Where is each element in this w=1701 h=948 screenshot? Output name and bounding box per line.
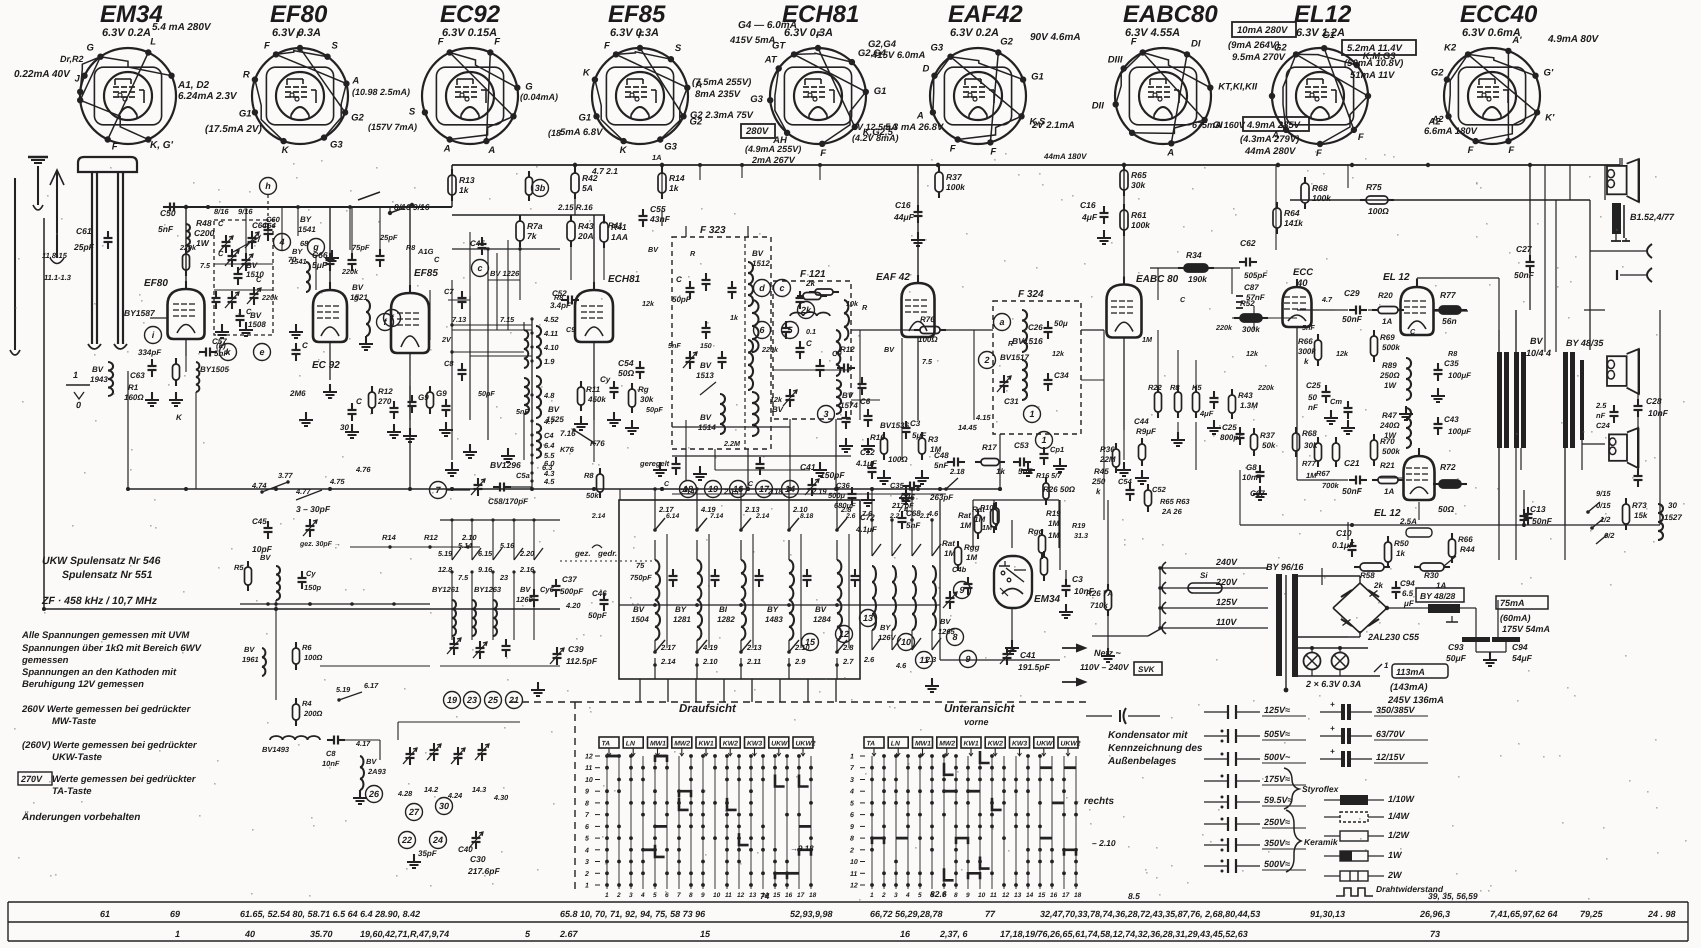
svg-text:10nF: 10nF [322,759,340,768]
svg-text:Außenbelages: Außenbelages [1107,756,1177,767]
svg-text:2.14: 2.14 [660,657,676,666]
svg-text:8: 8 [954,892,958,899]
svg-text:30: 30 [439,801,449,811]
svg-text:C: C [434,255,440,264]
svg-text:C45: C45 [252,517,267,526]
svg-text:150pF: 150pF [820,470,845,480]
svg-text:AT: AT [764,55,778,66]
svg-text:675mA 160V: 675mA 160V [1192,120,1246,130]
svg-text:12k: 12k [642,299,655,308]
svg-text:BV: BV [815,605,827,614]
svg-text:F: F [1358,132,1364,143]
svg-text:12.8: 12.8 [438,565,453,574]
svg-text:UKW: UKW [1036,741,1053,748]
svg-text:9/15: 9/15 [1596,489,1611,498]
svg-text:91,30,13: 91,30,13 [1310,909,1345,919]
svg-text:100k: 100k [1312,193,1332,203]
svg-text:700k: 700k [1322,481,1340,490]
svg-text:10: 10 [901,637,911,647]
svg-text:10nF: 10nF [1242,473,1262,482]
svg-text:1k: 1k [459,185,470,195]
svg-text:R70: R70 [1380,437,1395,446]
svg-text:6.3: 6.3 [542,463,553,472]
svg-text:Kondensator mit: Kondensator mit [1108,730,1188,741]
svg-text:EF80: EF80 [270,1,328,28]
svg-text:50k: 50k [586,491,599,500]
svg-text:G1: G1 [1322,30,1335,41]
svg-text:C: C [218,219,224,228]
svg-text:1: 1 [1041,435,1046,445]
svg-text:61: 61 [100,909,110,919]
svg-text:23: 23 [499,573,508,582]
svg-text:C: C [356,397,362,406]
svg-text:A: A [351,76,359,87]
svg-text:505V≈: 505V≈ [1264,729,1290,739]
svg-text:R45: R45 [1094,467,1109,476]
svg-text:2.17: 2.17 [660,643,676,652]
svg-text:1282: 1282 [717,615,735,624]
svg-text:C46: C46 [592,589,607,598]
svg-text:3: 3 [585,859,589,866]
svg-text:5nF: 5nF [516,407,529,416]
svg-text:K: K [583,68,591,79]
svg-text:16: 16 [785,892,793,899]
svg-text:175V≈: 175V≈ [1264,774,1290,784]
svg-text:(157V 7mA): (157V 7mA) [368,122,417,132]
svg-text:C29: C29 [1344,288,1360,298]
svg-text:C61: C61 [76,226,92,236]
svg-text:2mA 267V: 2mA 267V [751,155,796,165]
svg-text:100k: 100k [946,182,966,192]
svg-text:C53: C53 [1014,441,1029,450]
svg-text:S: S [332,41,339,52]
svg-text:R12: R12 [378,387,393,396]
svg-text:C: C [218,249,224,258]
svg-text:BV1516: BV1516 [1012,336,1043,346]
svg-text:A1G: A1G [417,247,434,256]
svg-text:22: 22 [401,835,412,845]
svg-text:7.5: 7.5 [200,261,211,270]
svg-text:C55: C55 [650,204,666,214]
svg-text:G: G [87,43,95,54]
svg-text:R22: R22 [1148,383,1163,392]
svg-text:k: k [1304,357,1309,366]
svg-text:R21: R21 [1380,461,1395,470]
svg-text:F: F [990,146,996,157]
svg-text:141k: 141k [1284,218,1304,228]
svg-text:EL12: EL12 [1294,1,1352,28]
svg-text:D: D [923,64,930,75]
svg-text:R43: R43 [1238,391,1253,400]
svg-text:C24: C24 [1596,421,1611,430]
svg-text:125V≈: 125V≈ [1264,705,1290,715]
svg-text:52,93,9,98: 52,93,9,98 [790,909,833,919]
svg-text:F: F [494,37,500,48]
svg-text:2: 2 [983,355,989,365]
svg-text:R9μF: R9μF [1136,427,1157,436]
svg-text:5nF: 5nF [158,224,174,234]
svg-text:4.75: 4.75 [329,477,345,486]
svg-text:2.2: 2.2 [889,513,900,520]
svg-text:Spannungen über 1kΩ mit Bereic: Spannungen über 1kΩ mit Bereich 6WV [22,643,202,654]
svg-text:R: R [1008,339,1014,348]
svg-text:12k: 12k [770,395,783,404]
svg-text:4.17: 4.17 [355,739,371,748]
svg-text:12: 12 [1002,892,1010,899]
svg-text:C36: C36 [836,481,851,490]
svg-text:9/16: 9/16 [238,207,253,216]
svg-text:30k: 30k [640,395,654,404]
svg-text:50pF: 50pF [646,405,663,414]
svg-text:G3: G3 [750,94,763,105]
svg-text:+: + [1330,700,1335,709]
svg-text:BV: BV [548,405,560,414]
svg-text:1: 1 [175,929,180,939]
svg-text:12k: 12k [1052,349,1065,358]
svg-text:15: 15 [773,892,781,899]
svg-text:2.16: 2.16 [519,565,535,574]
svg-text:Cm: Cm [1330,397,1342,406]
svg-text:1M: 1M [960,521,971,530]
svg-text:43nF: 43nF [649,214,671,224]
svg-text:3: 3 [850,777,854,784]
svg-text:5.2mA 11.4V: 5.2mA 11.4V [1347,43,1403,54]
svg-text:MW1: MW1 [915,741,931,748]
svg-text:BY 48/28: BY 48/28 [1420,591,1456,601]
svg-text:112.5pF: 112.5pF [566,656,598,666]
svg-text:220k: 220k [341,267,359,276]
svg-text:4.7 2.1: 4.7 2.1 [591,166,618,176]
svg-text:75: 75 [636,561,645,570]
svg-text:3: 3 [894,892,898,899]
svg-text:C8: C8 [326,749,336,758]
svg-text:R11: R11 [586,385,601,394]
svg-text:10: 10 [850,859,858,866]
svg-text:0.22mA 40V: 0.22mA 40V [14,69,71,80]
svg-text:8mA 235V: 8mA 235V [695,89,741,100]
svg-text:Styroflex: Styroflex [1302,784,1340,794]
svg-text:F: F [604,40,610,51]
svg-text:500V≈: 500V≈ [1264,859,1290,869]
svg-text:30k: 30k [1131,180,1146,190]
svg-text:→9.18: →9.18 [790,844,814,853]
svg-text:R50: R50 [1394,539,1409,548]
svg-text:1: 1 [1384,661,1389,670]
svg-text:C40: C40 [458,845,473,854]
svg-text:3 – 30pF: 3 – 30pF [296,504,331,514]
svg-text:12k: 12k [1336,349,1349,358]
svg-text:10/4 4: 10/4 4 [1526,348,1551,358]
svg-text:6.3V 0.3A: 6.3V 0.3A [610,27,659,39]
svg-text:2k: 2k [1373,581,1383,590]
svg-text:100μF: 100μF [1448,427,1472,436]
svg-text:16: 16 [900,929,911,939]
svg-text:C4b: C4b [952,565,967,574]
svg-text:8: 8 [585,800,589,807]
svg-text:C7: C7 [444,287,454,296]
svg-text:50k: 50k [1262,441,1276,450]
svg-text:UKW2: UKW2 [1061,741,1081,748]
svg-text:3: 3 [823,409,828,419]
svg-text:(4.9mA 255V): (4.9mA 255V) [745,144,801,154]
svg-text:F 324: F 324 [1018,289,1044,300]
svg-text:2 × 6.3V 0.3A: 2 × 6.3V 0.3A [1305,679,1361,689]
svg-text:MW-Taste: MW-Taste [52,716,97,727]
svg-text:(143mA): (143mA) [1390,682,1428,693]
svg-text:C44: C44 [1134,417,1149,426]
svg-text:415V 5mA: 415V 5mA [729,35,776,46]
svg-text:C60: C60 [266,215,281,224]
svg-text:C94: C94 [1512,642,1528,652]
svg-text:EC 92: EC 92 [312,360,340,371]
svg-text:77: 77 [985,909,996,919]
svg-text:R12: R12 [424,533,439,542]
svg-text:680μF: 680μF [834,501,856,510]
svg-text:2.11: 2.11 [746,657,761,666]
svg-text:500pF: 500pF [560,587,584,596]
svg-text:BV: BV [842,391,854,400]
svg-text:EF85: EF85 [414,268,438,279]
svg-text:26,96,3: 26,96,3 [1419,909,1450,919]
svg-text:G8: G8 [1246,463,1257,472]
svg-text:50μ: 50μ [1054,319,1068,328]
svg-text:G2 2.3mA 75V: G2 2.3mA 75V [690,110,754,121]
svg-text:39, 35, 56,59: 39, 35, 56,59 [1428,891,1478,901]
svg-text:C: C [302,341,308,350]
svg-text:40: 40 [244,929,255,939]
svg-text:EABC 80: EABC 80 [1136,274,1179,285]
svg-text:10: 10 [978,892,986,899]
svg-text:100Ω: 100Ω [304,653,323,662]
svg-text:R17: R17 [982,443,997,452]
svg-text:R19: R19 [1072,521,1085,530]
svg-text:Spulensatz Nr 551: Spulensatz Nr 551 [62,569,153,581]
svg-text:G1: G1 [579,112,592,123]
svg-text:9: 9 [701,892,705,899]
svg-text:5.16: 5.16 [500,541,515,550]
svg-text:C48: C48 [934,451,949,460]
svg-text:C52: C52 [1152,485,1167,494]
svg-text:7.14: 7.14 [710,513,723,520]
svg-text:3.4pF: 3.4pF [550,301,572,310]
svg-text:8.18: 8.18 [800,513,813,520]
svg-text:EABC80: EABC80 [1123,1,1218,28]
svg-text:K: K [282,145,290,156]
svg-text:EAF 42: EAF 42 [876,272,910,283]
svg-text:C35: C35 [1444,359,1459,368]
svg-text:7.13: 7.13 [452,315,466,324]
svg-text:11.1-1.3: 11.1-1.3 [44,273,72,282]
svg-text:F 323: F 323 [700,225,726,236]
svg-text:1521: 1521 [350,293,368,302]
svg-text:S: S [675,43,682,54]
svg-text:R3: R3 [928,435,939,444]
svg-text:R58: R58 [1360,571,1375,580]
svg-text:G9: G9 [436,389,447,398]
svg-text:79,25: 79,25 [1580,909,1604,919]
svg-text:8: 8 [850,836,854,843]
svg-text:BV: BV [700,361,712,370]
svg-text:BY 48/35: BY 48/35 [1566,338,1604,348]
svg-text:TA-Taste: TA-Taste [52,786,92,797]
svg-text:KW1: KW1 [699,741,714,748]
svg-text:Rat: Rat [958,511,971,520]
svg-text:2M6: 2M6 [289,389,306,398]
svg-text:24 . 98: 24 . 98 [1647,909,1676,919]
svg-text:G2: G2 [1431,68,1444,79]
svg-text:113mA: 113mA [1396,667,1425,677]
svg-text:C: C [676,275,682,284]
svg-text:KT,KI,KII: KT,KI,KII [1218,82,1257,93]
svg-text:220k: 220k [761,345,779,354]
svg-text:217.6pF: 217.6pF [467,866,500,876]
svg-text:1: 1 [73,370,78,380]
svg-text:LN: LN [891,741,901,748]
svg-text:9: 9 [850,824,854,831]
svg-text:Cy: Cy [306,569,316,578]
svg-text:K76: K76 [560,445,575,454]
svg-text:C13: C13 [1530,504,1546,514]
svg-text:C9: C9 [566,325,575,334]
svg-text:G4 — 6.0mA: G4 — 6.0mA [738,20,797,31]
svg-text:6.3V 0.2A: 6.3V 0.2A [102,27,151,39]
svg-text:9: 9 [585,789,589,796]
svg-text:4: 4 [905,892,910,899]
svg-text:1k: 1k [1396,549,1405,558]
svg-text:22M: 22M [1099,455,1116,464]
svg-text:1A: 1A [1436,581,1446,590]
svg-text:R: R [243,70,250,81]
svg-text:51mA 11V: 51mA 11V [1350,70,1395,81]
svg-text:EF85: EF85 [608,1,666,28]
svg-text:Werte gemessen bei gedrückter: Werte gemessen bei gedrückter [52,774,197,785]
svg-text:Cy: Cy [600,375,611,384]
svg-text:Rg: Rg [638,385,649,394]
svg-text:R5: R5 [234,563,244,572]
svg-text:1961: 1961 [242,655,259,664]
svg-text:(4.3mA 279V): (4.3mA 279V) [1240,134,1299,145]
svg-text:4.15: 4.15 [975,413,991,422]
svg-text:1A: 1A [1382,317,1392,326]
svg-text:BV: BV [648,245,659,254]
svg-text:100Ω: 100Ω [1368,206,1389,216]
svg-text:6: 6 [665,892,669,899]
svg-text:R37: R37 [946,172,963,182]
svg-text:G9: G9 [418,393,429,402]
svg-text:0: 0 [76,400,81,410]
svg-text:9: 9 [959,585,964,595]
svg-text:1AA: 1AA [611,232,628,242]
svg-text:Alle Spannungen gemessen mit U: Alle Spannungen gemessen mit UVM [21,630,190,641]
svg-text:d: d [759,283,765,293]
svg-text:1525: 1525 [546,415,564,424]
svg-text:K2: K2 [1444,42,1457,53]
svg-text:BV: BV [633,605,645,614]
svg-text:12: 12 [839,629,849,639]
svg-text:15: 15 [805,637,816,647]
svg-text:1k: 1k [730,313,739,322]
svg-text:18: 18 [809,892,817,899]
svg-text:2,37, 6: 2,37, 6 [939,929,969,939]
svg-text:2AL230 C55: 2AL230 C55 [1367,632,1420,642]
svg-text:50nF: 50nF [1514,270,1535,280]
svg-text:ECC40: ECC40 [1460,1,1538,28]
svg-text:Spannungen an den Kathoden mit: Spannungen an den Kathoden mit [22,667,177,678]
svg-text:S: S [409,106,416,117]
svg-text:2k: 2k [800,305,812,315]
svg-text:220k: 220k [1215,323,1233,332]
svg-text:BV: BV [244,645,255,654]
svg-text:2.9: 2.9 [794,657,806,666]
svg-text:G1: G1 [1031,72,1044,83]
svg-text:e: e [259,347,264,357]
svg-text:1574: 1574 [840,401,858,410]
svg-text:217pF: 217pF [891,501,914,510]
svg-text:BV: BV [352,283,364,292]
svg-text:500k: 500k [1382,447,1400,456]
svg-text:R8: R8 [584,471,594,480]
svg-text:C35: C35 [890,481,905,490]
svg-text:100Ω: 100Ω [918,335,938,344]
svg-text:66,72 56,29,28,78: 66,72 56,29,28,78 [870,909,943,919]
svg-text:C3: C3 [910,419,921,428]
svg-text:4.6: 4.6 [895,661,907,670]
svg-text:5.4 mA 280V: 5.4 mA 280V [152,22,212,33]
svg-text:h: h [265,181,271,191]
svg-text:UKW Spulensatz Nr 546: UKW Spulensatz Nr 546 [42,555,161,567]
svg-text:K: K [620,145,628,156]
svg-text:35.70: 35.70 [310,929,333,939]
svg-text:R76: R76 [920,315,935,324]
svg-text:1281: 1281 [673,615,691,624]
svg-text:MW2: MW2 [674,741,690,748]
svg-text:(10.98 2.5mA): (10.98 2.5mA) [352,87,410,97]
svg-text:Änderungen vorbehalten: Änderungen vorbehalten [21,811,140,823]
svg-text:BY1587: BY1587 [124,308,156,318]
svg-text:R61: R61 [1131,210,1147,220]
svg-text:BV: BV [752,249,764,258]
svg-text:44mA 280V: 44mA 280V [1244,146,1296,157]
svg-text:24: 24 [432,835,443,845]
svg-text:2A 26: 2A 26 [1161,507,1183,516]
svg-text:C6: C6 [860,397,871,406]
svg-text:G2: G2 [351,112,364,123]
svg-text:R6: R6 [302,643,312,652]
svg-text:a: a [999,317,1004,327]
svg-text:5.14: 5.14 [458,541,472,550]
svg-text:BV: BV [246,261,258,270]
svg-text:C21: C21 [1344,458,1360,468]
svg-text:nF: nF [1596,411,1606,420]
svg-text:17,18,19/76,26,65,61,74,58,12,: 17,18,19/76,26,65,61,74,58,12,74,32,36,2… [1000,929,1248,939]
svg-text:26: 26 [368,789,380,799]
svg-text:1: 1 [605,892,609,899]
svg-text:C5a: C5a [516,471,530,480]
svg-text:nF: nF [1308,403,1319,412]
svg-text:DI: DI [1191,38,1201,49]
svg-text:– 2.10: – 2.10 [1092,838,1116,848]
svg-text:F: F [816,30,822,41]
svg-text:(7.5mA 255V): (7.5mA 255V) [692,77,751,88]
svg-text:2.6: 2.6 [845,513,856,520]
svg-text:BV1493: BV1493 [262,745,290,754]
svg-text:25pF: 25pF [379,233,398,242]
svg-text:Kennzeichnung des: Kennzeichnung des [1108,743,1203,754]
svg-text:C41: C41 [1020,650,1036,660]
svg-text:190k: 190k [1188,274,1208,284]
svg-text:10k: 10k [846,299,859,308]
svg-text:65.8 10, 70, 71, 92, 94, 75, 5: 65.8 10, 70, 71, 92, 94, 75, 58 73 96 [560,909,706,919]
